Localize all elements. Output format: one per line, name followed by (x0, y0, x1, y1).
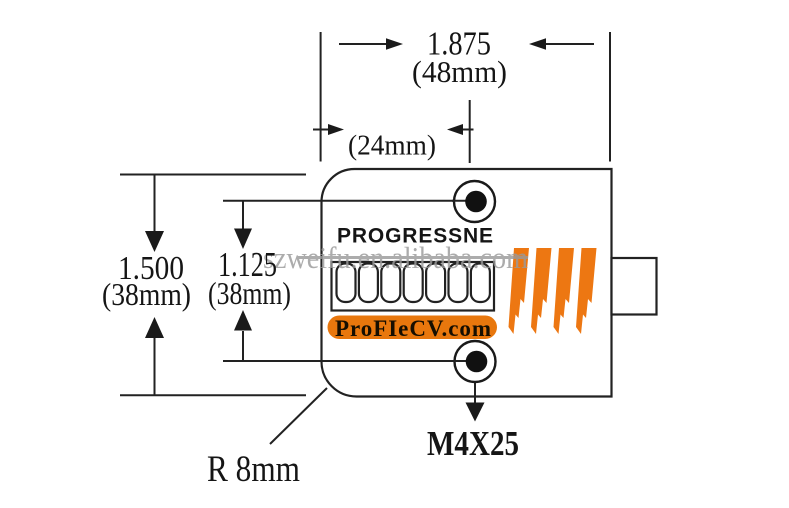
svg-text:M4X25: M4X25 (427, 424, 519, 463)
svg-text:(48mm): (48mm) (412, 54, 507, 89)
svg-text:R 8mm: R 8mm (207, 449, 300, 490)
svg-text:(38mm): (38mm) (208, 275, 291, 311)
svg-text:(38mm): (38mm) (102, 276, 191, 312)
svg-text:ProFIeCV.com: ProFIeCV.com (335, 316, 491, 341)
svg-text:(24mm): (24mm) (348, 131, 436, 162)
